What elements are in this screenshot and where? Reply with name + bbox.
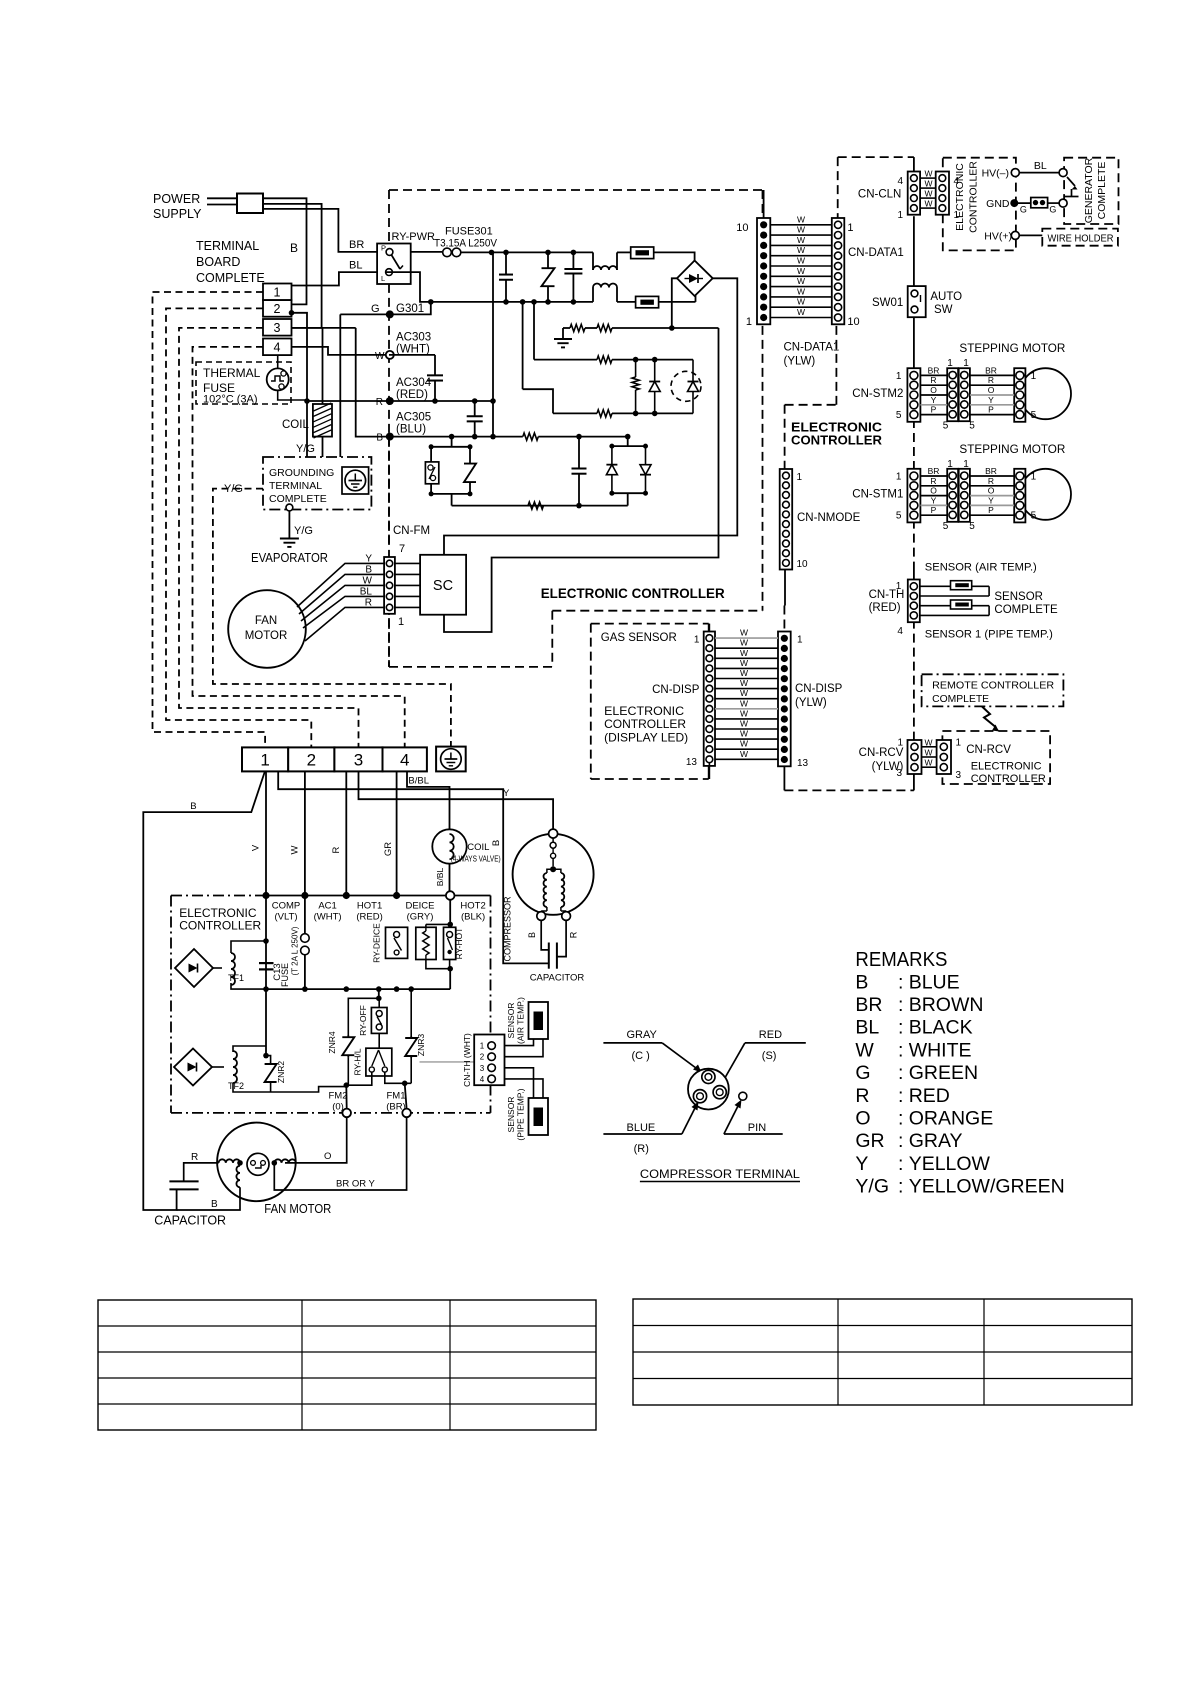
svg-text:BLUE: BLUE (909, 971, 960, 993)
svg-text:W: W (375, 351, 385, 362)
svg-text:YELLOW/GREEN: YELLOW/GREEN (909, 1176, 1065, 1198)
svg-text:Y: Y (931, 395, 937, 405)
svg-text:W: W (740, 719, 748, 729)
svg-text:1: 1 (797, 635, 803, 646)
svg-text:B/BL: B/BL (408, 776, 429, 787)
svg-text::: : (898, 1108, 903, 1130)
svg-text:1: 1 (963, 358, 969, 369)
svg-text:HV(–): HV(–) (982, 168, 1009, 180)
svg-text:SENSOR (AIR TEMP.): SENSOR (AIR TEMP.) (925, 562, 1037, 574)
svg-text:SC: SC (433, 578, 453, 594)
svg-text:B: B (855, 971, 868, 993)
svg-text:COIL: COIL (282, 419, 309, 431)
svg-text:P: P (931, 405, 937, 415)
svg-text:1: 1 (260, 751, 269, 770)
svg-text:THERMAL: THERMAL (203, 366, 261, 380)
svg-text:O: O (930, 385, 937, 395)
svg-text:BOARD: BOARD (196, 255, 240, 269)
svg-text:STEPPING MOTOR: STEPPING MOTOR (959, 444, 1065, 456)
svg-text:R: R (331, 846, 342, 853)
svg-text:W: W (924, 737, 932, 747)
svg-text:L: L (381, 274, 385, 283)
svg-text:HOT2: HOT2 (460, 901, 485, 912)
svg-text:Y/G: Y/G (294, 525, 313, 537)
svg-text:W: W (797, 225, 805, 235)
svg-text:7: 7 (399, 543, 405, 555)
svg-text:G: G (371, 303, 380, 315)
svg-text:1: 1 (274, 286, 281, 300)
svg-text::: : (898, 1062, 903, 1084)
svg-text:CN-DISP: CN-DISP (795, 683, 843, 695)
svg-text:HV(+): HV(+) (984, 231, 1012, 243)
svg-text:SW: SW (934, 304, 953, 316)
svg-text:(WHT): (WHT) (314, 912, 342, 923)
svg-text:TERMINAL: TERMINAL (196, 239, 259, 253)
svg-text:W: W (924, 748, 932, 758)
svg-text::: : (898, 1017, 903, 1039)
svg-text:5: 5 (896, 410, 902, 421)
svg-text:FAN MOTOR: FAN MOTOR (264, 1201, 331, 1216)
svg-text:Y: Y (988, 495, 994, 505)
svg-text:CONTROLLER: CONTROLLER (179, 919, 261, 933)
svg-text:AC305: AC305 (396, 412, 431, 424)
svg-text:1: 1 (694, 635, 700, 646)
svg-text:POWER: POWER (153, 192, 200, 206)
svg-text:TERMINAL: TERMINAL (269, 480, 322, 492)
svg-text:CN-DATA1: CN-DATA1 (848, 247, 904, 259)
svg-text:SENSOR: SENSOR (506, 1003, 516, 1039)
svg-text:ZNR2: ZNR2 (276, 1061, 286, 1083)
svg-text:1: 1 (896, 371, 902, 382)
svg-text:W: W (740, 678, 748, 688)
svg-text:P: P (988, 405, 994, 415)
svg-text:W: W (740, 698, 748, 708)
svg-text:BR OR Y: BR OR Y (336, 1179, 376, 1190)
svg-text:10: 10 (797, 559, 809, 570)
svg-text:Y/G: Y/G (224, 483, 243, 495)
svg-text:W: W (740, 638, 748, 648)
svg-text:(YLW): (YLW) (784, 356, 816, 368)
svg-text:HOT1: HOT1 (357, 901, 382, 912)
svg-text:W: W (797, 286, 805, 296)
svg-text:WIRE HOLDER: WIRE HOLDER (1048, 233, 1114, 245)
svg-text:BR: BR (985, 365, 997, 375)
svg-text:W: W (797, 235, 805, 245)
svg-text:BR: BR (928, 365, 940, 375)
svg-text:GR: GR (855, 1130, 884, 1152)
svg-text:COMPRESSOR TERMINAL: COMPRESSOR TERMINAL (640, 1169, 801, 1181)
svg-text:GREEN: GREEN (909, 1062, 978, 1084)
svg-text:TF1: TF1 (228, 973, 244, 983)
svg-text:(BLU): (BLU) (396, 424, 426, 436)
svg-text:(DISPLAY LED): (DISPLAY LED) (604, 731, 688, 745)
svg-text:ORANGE: ORANGE (909, 1108, 994, 1130)
svg-text:(C ): (C ) (632, 1050, 650, 1062)
svg-text:GND: GND (986, 198, 1010, 210)
svg-text:3: 3 (274, 321, 281, 335)
svg-text:13: 13 (797, 758, 809, 769)
svg-text:T3.15A L250V: T3.15A L250V (434, 238, 498, 250)
svg-text:AC304: AC304 (396, 377, 432, 389)
svg-text:CONTROLLER: CONTROLLER (791, 433, 883, 448)
svg-text:4: 4 (897, 176, 903, 187)
svg-text::: : (898, 1153, 903, 1175)
svg-text:COMPLETE: COMPLETE (994, 604, 1058, 616)
svg-text:B: B (211, 1199, 218, 1210)
svg-text:GENERATOR: GENERATOR (1083, 157, 1095, 223)
svg-text:YELLOW: YELLOW (909, 1153, 991, 1175)
svg-text:W: W (797, 245, 805, 255)
svg-text:RED: RED (909, 1085, 950, 1107)
svg-text:BLACK: BLACK (909, 1017, 973, 1039)
svg-text:1: 1 (897, 210, 903, 221)
svg-text:BL: BL (1034, 160, 1047, 172)
svg-text:AC303: AC303 (396, 332, 431, 344)
svg-text:W: W (925, 199, 933, 209)
svg-text:W: W (740, 729, 748, 739)
svg-text:(GRY): (GRY) (407, 912, 434, 923)
svg-text:SENSOR: SENSOR (506, 1097, 516, 1133)
svg-text:W: W (740, 749, 748, 759)
svg-text:W: W (797, 276, 805, 286)
svg-text:1: 1 (480, 1042, 485, 1051)
svg-text:(4-WAYS VALVE): (4-WAYS VALVE) (451, 855, 501, 864)
svg-text:(YLW): (YLW) (872, 761, 904, 773)
svg-text:1: 1 (1031, 472, 1037, 483)
svg-text:Y: Y (365, 553, 372, 564)
svg-text:BL: BL (349, 260, 362, 272)
svg-text:ZNR3: ZNR3 (416, 1034, 426, 1056)
svg-text:CAPACITOR: CAPACITOR (154, 1214, 226, 1228)
svg-text:W: W (797, 256, 805, 266)
svg-text:BR: BR (349, 239, 364, 251)
svg-text:(VLT): (VLT) (274, 912, 297, 923)
svg-text:ELECTRONIC CONTROLLER: ELECTRONIC CONTROLLER (541, 586, 725, 601)
svg-text:ZNR4: ZNR4 (327, 1031, 337, 1053)
svg-text:RY-DEICE: RY-DEICE (372, 923, 382, 963)
svg-text:(RED): (RED) (869, 602, 901, 614)
svg-text:(AIR TEMP.): (AIR TEMP.) (516, 997, 526, 1044)
svg-text:(PIPE TEMP.): (PIPE TEMP.) (516, 1088, 526, 1140)
svg-text:Y: Y (855, 1153, 868, 1175)
svg-text:FUSE: FUSE (280, 963, 290, 987)
svg-text:W: W (740, 658, 748, 668)
svg-text:SUPPLY: SUPPLY (153, 207, 202, 221)
svg-text:R: R (191, 1152, 198, 1163)
svg-text:W: W (924, 758, 932, 768)
svg-text:(WHT): (WHT) (396, 344, 430, 356)
svg-text:COMPLETE: COMPLETE (269, 493, 327, 505)
svg-text:RY-PWR: RY-PWR (392, 231, 435, 243)
svg-text:W: W (855, 1039, 874, 1061)
svg-text:B: B (376, 433, 383, 444)
svg-text:W: W (925, 179, 933, 189)
svg-text:3: 3 (956, 770, 962, 781)
svg-text::: : (898, 1085, 903, 1107)
svg-text:4: 4 (897, 626, 903, 637)
svg-text:CN-FM: CN-FM (393, 525, 430, 537)
svg-text:PIN: PIN (748, 1122, 766, 1134)
svg-text:W: W (363, 575, 373, 586)
svg-text:1: 1 (797, 472, 803, 483)
svg-text:FM1: FM1 (387, 1091, 406, 1102)
svg-text:RY-OFF: RY-OFF (358, 1005, 368, 1036)
svg-text:1: 1 (947, 459, 953, 470)
svg-text:R: R (855, 1085, 869, 1107)
svg-text:GRAY: GRAY (627, 1029, 658, 1041)
svg-text:CONTROLLER: CONTROLLER (968, 161, 980, 233)
svg-text:W: W (797, 266, 805, 276)
svg-text:10: 10 (847, 316, 859, 328)
svg-text:O: O (324, 1151, 331, 1162)
svg-text:1: 1 (398, 616, 404, 628)
svg-text:W: W (740, 648, 748, 658)
svg-text:O: O (930, 486, 937, 496)
svg-text:1: 1 (847, 222, 853, 234)
svg-text:R: R (930, 375, 936, 385)
svg-text::: : (898, 994, 903, 1016)
svg-text:P: P (988, 505, 994, 515)
svg-text:13: 13 (686, 757, 698, 768)
svg-text:B: B (290, 241, 298, 255)
svg-text:B: B (190, 801, 196, 812)
svg-text:3: 3 (354, 751, 363, 770)
svg-text:1: 1 (956, 738, 962, 749)
svg-text:W: W (797, 307, 805, 317)
svg-text:BR: BR (855, 994, 882, 1016)
svg-text:W: W (925, 189, 933, 199)
svg-text:SENSOR 1 (PIPE TEMP.): SENSOR 1 (PIPE TEMP.) (925, 629, 1053, 641)
svg-text:10: 10 (736, 222, 748, 234)
svg-text:(YLW): (YLW) (795, 697, 827, 709)
svg-text:FAN: FAN (255, 615, 277, 627)
svg-text:CN-NMODE: CN-NMODE (797, 512, 861, 524)
svg-text:ELECTRONIC: ELECTRONIC (971, 761, 1042, 773)
svg-text:CN-DATA1: CN-DATA1 (784, 342, 840, 354)
svg-text:COMP: COMP (272, 901, 301, 912)
svg-text:W: W (797, 214, 805, 224)
svg-text:B: B (527, 932, 537, 938)
svg-text:4: 4 (400, 751, 409, 770)
svg-text:W: W (740, 628, 748, 638)
svg-text:BR: BR (928, 466, 940, 476)
svg-text:Y/G: Y/G (855, 1176, 889, 1198)
svg-text:5: 5 (896, 511, 902, 522)
svg-text:W: W (797, 297, 805, 307)
svg-text:G: G (1020, 205, 1027, 215)
svg-text:CONTROLLER: CONTROLLER (971, 773, 1046, 785)
svg-text:BROWN: BROWN (909, 994, 984, 1016)
svg-text:GROUNDING: GROUNDING (269, 467, 334, 479)
svg-text:RY-HOT: RY-HOT (454, 928, 464, 960)
svg-text:R: R (365, 597, 372, 608)
svg-text:B: B (491, 840, 502, 846)
svg-text:2: 2 (307, 751, 316, 770)
svg-text:3: 3 (480, 1064, 485, 1073)
svg-text:WHITE: WHITE (909, 1039, 972, 1061)
svg-text:1: 1 (963, 459, 969, 470)
svg-text:CONTROLLER: CONTROLLER (604, 717, 686, 731)
svg-text:DEICE: DEICE (405, 901, 434, 912)
svg-text:CN-TH: CN-TH (869, 589, 905, 601)
svg-text:(BLK): (BLK) (461, 912, 485, 923)
svg-text:(R): (R) (634, 1143, 649, 1155)
svg-text:1: 1 (947, 358, 953, 369)
svg-text:5: 5 (943, 521, 949, 532)
svg-text:5: 5 (1031, 511, 1037, 522)
svg-text::: : (898, 1039, 903, 1061)
svg-text:CN-STM1: CN-STM1 (852, 489, 903, 501)
svg-text:4: 4 (274, 341, 281, 355)
svg-text:CN-RCV: CN-RCV (859, 747, 904, 759)
svg-text:RY-H/L: RY-H/L (353, 1048, 363, 1075)
svg-text:SW01: SW01 (872, 297, 903, 309)
svg-text:O: O (855, 1108, 870, 1130)
svg-text:R: R (376, 397, 383, 408)
svg-text:W: W (740, 708, 748, 718)
svg-text:Y: Y (931, 495, 937, 505)
svg-text:(S): (S) (762, 1050, 777, 1062)
svg-text:(RED): (RED) (396, 389, 428, 401)
svg-text:BL: BL (360, 586, 373, 597)
svg-text:5: 5 (1031, 410, 1037, 421)
svg-text:CN-TH (WHT): CN-TH (WHT) (462, 1033, 472, 1087)
svg-text:EVAPORATOR: EVAPORATOR (251, 551, 328, 565)
svg-text:R: R (988, 375, 994, 385)
svg-text:AC1: AC1 (318, 901, 336, 912)
svg-text:W: W (925, 169, 933, 179)
svg-text:COMPLETE: COMPLETE (196, 271, 265, 285)
svg-text:BLUE: BLUE (627, 1122, 656, 1134)
svg-text:1: 1 (1031, 371, 1037, 382)
svg-text:COMPLETE: COMPLETE (932, 693, 989, 705)
svg-text:COIL: COIL (467, 842, 489, 853)
svg-text:W: W (740, 688, 748, 698)
svg-text:FUSE301: FUSE301 (445, 226, 493, 238)
svg-text:ELECTRONIC: ELECTRONIC (954, 163, 966, 231)
svg-text:BL: BL (855, 1017, 879, 1039)
svg-text:RED: RED (759, 1029, 782, 1041)
svg-text:G301: G301 (396, 303, 424, 315)
svg-text::: : (898, 971, 903, 993)
svg-text:2: 2 (274, 302, 281, 316)
svg-text:1: 1 (746, 316, 752, 328)
svg-text:P: P (931, 505, 937, 515)
svg-text:4: 4 (480, 1075, 485, 1084)
svg-text:COMPLETE: COMPLETE (1096, 162, 1108, 220)
svg-text:GR: GR (383, 842, 394, 856)
svg-text:BR: BR (985, 466, 997, 476)
svg-text:5: 5 (969, 421, 975, 432)
svg-text:O: O (988, 385, 995, 395)
svg-text:R: R (930, 476, 936, 486)
svg-text:AUTO: AUTO (930, 291, 962, 303)
svg-text:REMOTE CONTROLLER: REMOTE CONTROLLER (932, 680, 1054, 692)
svg-text:1: 1 (896, 472, 902, 483)
svg-text:GRAY: GRAY (909, 1130, 963, 1152)
svg-text:COMPRESSOR: COMPRESSOR (503, 896, 513, 962)
svg-text:W: W (740, 739, 748, 749)
svg-text:5: 5 (969, 521, 975, 532)
svg-text:Y/G: Y/G (296, 443, 315, 455)
svg-text:(RED): (RED) (356, 912, 382, 923)
svg-text:B/BL: B/BL (435, 868, 445, 887)
svg-text:TF2: TF2 (228, 1081, 244, 1091)
svg-text:CAPACITOR: CAPACITOR (530, 973, 585, 984)
svg-text:CN-CLN: CN-CLN (858, 189, 901, 201)
svg-text:CN-DISP: CN-DISP (652, 684, 700, 696)
svg-text:G: G (1049, 205, 1056, 215)
svg-text:Y: Y (988, 395, 994, 405)
svg-text:R: R (569, 931, 579, 938)
svg-text::: : (898, 1176, 903, 1198)
svg-text:GAS SENSOR: GAS SENSOR (601, 632, 677, 644)
svg-text:ELECTRONIC: ELECTRONIC (604, 704, 684, 718)
svg-text:5: 5 (943, 421, 949, 432)
svg-text:(T 2A L 250V): (T 2A L 250V) (291, 926, 300, 975)
svg-text:STEPPING MOTOR: STEPPING MOTOR (959, 343, 1065, 355)
svg-text:O: O (988, 486, 995, 496)
svg-text::: : (898, 1130, 903, 1152)
svg-text:MOTOR: MOTOR (245, 630, 288, 642)
svg-text:2: 2 (480, 1053, 485, 1062)
svg-text:CN-STM2: CN-STM2 (852, 388, 903, 400)
svg-text:V: V (251, 844, 262, 851)
svg-text:W: W (740, 668, 748, 678)
svg-text:P: P (381, 244, 386, 253)
svg-text:REMARKS: REMARKS (855, 949, 947, 971)
svg-text:SENSOR: SENSOR (994, 591, 1043, 603)
svg-text:FM2: FM2 (329, 1091, 348, 1102)
svg-text:W: W (290, 845, 301, 854)
svg-text:R: R (988, 476, 994, 486)
svg-text:CN-RCV: CN-RCV (966, 744, 1011, 756)
svg-text:102°C (3A): 102°C (3A) (203, 394, 258, 406)
svg-text:B: B (365, 564, 372, 575)
svg-text:G: G (855, 1062, 870, 1084)
